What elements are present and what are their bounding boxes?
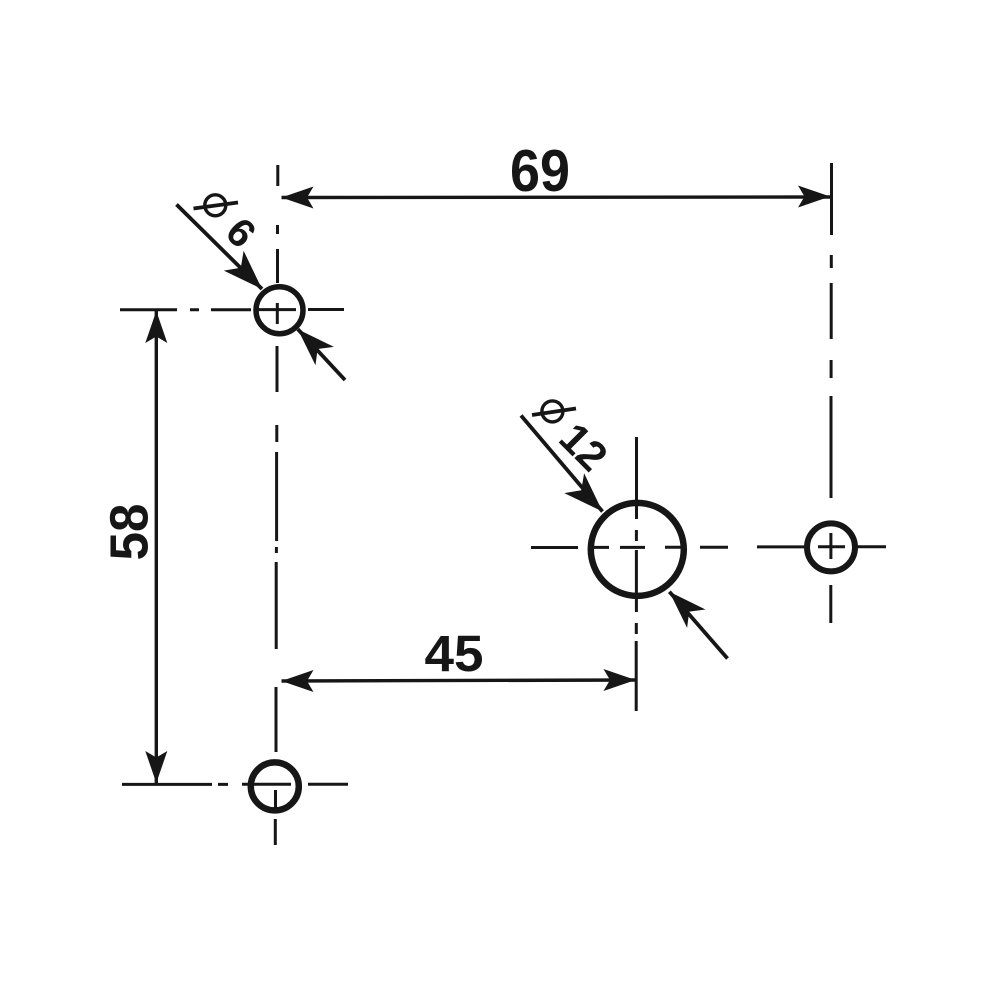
centerline V2 vertical through hole C (635, 437, 638, 711)
svg-text:12: 12 (551, 414, 617, 480)
centerline H3 horizontal through hole C (531, 546, 728, 549)
second arrow head hole C (669, 592, 705, 628)
centerline H4 horizontal through hole D (757, 545, 886, 548)
hole A small circle top-left (256, 287, 303, 334)
label d12 phi slash (532, 409, 576, 416)
label d6 phi circle (205, 195, 226, 216)
hole D small circle right (807, 523, 855, 571)
second arrow to hole A (298, 329, 345, 380)
centerline V1 vertical through left holes (275, 165, 278, 845)
label d6 phi slash (194, 203, 239, 209)
svg-text:58: 58 (99, 504, 159, 561)
svg-text:69: 69 (510, 138, 570, 204)
label d12 phi circle (542, 401, 563, 422)
dimension 69 right arrow (798, 186, 830, 208)
dimension 58 top arrow (145, 311, 167, 343)
dimension 45 left arrow (282, 670, 314, 692)
dimension 58 line (155, 311, 158, 783)
svg-text:45: 45 (425, 625, 484, 682)
hole C large circle center (591, 503, 684, 596)
dimension 45 right arrow (604, 669, 636, 691)
dimension 69 line (282, 195, 831, 199)
second arrow to hole C (669, 592, 727, 659)
leader d12 arrow (564, 473, 602, 511)
dimension 45 line (282, 680, 636, 681)
centerline V3 vertical through hole D (829, 163, 833, 623)
leader d6 arrow (224, 251, 262, 289)
hole B small circle bottom-left (251, 762, 299, 810)
centerline H2 horizontal through hole B (122, 783, 348, 786)
dimension 69 left arrow (282, 187, 314, 209)
leader line for label d12 (521, 416, 603, 512)
dimension 58 bottom arrow (145, 751, 167, 783)
leader line for label d6 (177, 205, 263, 290)
second arrow head hole A (298, 329, 334, 365)
centerline H1 horizontal through hole A (120, 308, 344, 311)
